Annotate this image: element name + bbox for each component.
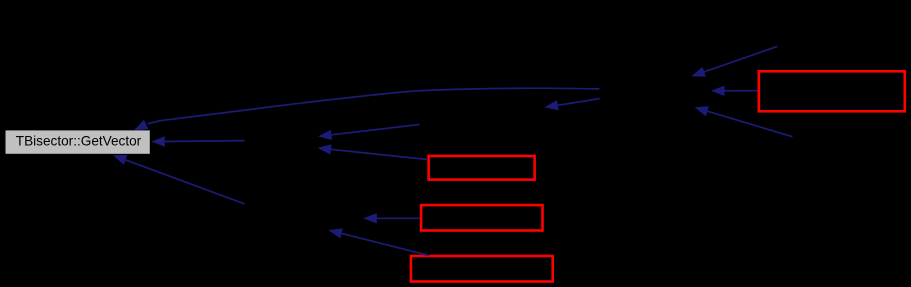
node N6 (hidden caller node, black on black) bbox=[793, 128, 903, 152]
truncated node box4 (red border, two lines) bbox=[759, 71, 905, 111]
node N4 (hidden caller node, black on black, two lines) bbox=[600, 74, 711, 112]
node N2 (hidden caller node, black on black) bbox=[245, 206, 363, 230]
edge box2 to N2 bbox=[363, 213, 420, 223]
node N3 (hidden caller node, black on black) bbox=[420, 95, 544, 119]
edge N6 to N4 bbox=[695, 106, 793, 137]
svg-text:TBisector::GetVector: TBisector::GetVector bbox=[16, 133, 142, 148]
edge box1 to N1 bbox=[318, 144, 428, 159]
edge N3 to N1 bbox=[318, 125, 420, 141]
edge N5 to N4 bbox=[692, 46, 778, 76]
truncated node box1 (red border) bbox=[429, 156, 535, 180]
node N1 (hidden caller node, black on black) bbox=[245, 128, 318, 152]
truncated node box3 (red border) bbox=[411, 256, 553, 282]
node N5 (hidden caller node, black on black) bbox=[778, 22, 898, 46]
edge box4 to N4 bbox=[711, 86, 758, 96]
edge N4 to N3 bbox=[545, 99, 600, 111]
edge N4 to TBisector::GetVector (long curve) bbox=[134, 88, 600, 130]
edge N2 to TBisector::GetVector bbox=[113, 155, 245, 204]
edge box3 to N2 bbox=[329, 228, 430, 255]
edge N1 to TBisector::GetVector bbox=[151, 136, 245, 146]
truncated node box2 (red border) bbox=[421, 205, 542, 230]
node N0 TBisector::GetVector (current node, grey fill) bbox=[6, 130, 150, 153]
